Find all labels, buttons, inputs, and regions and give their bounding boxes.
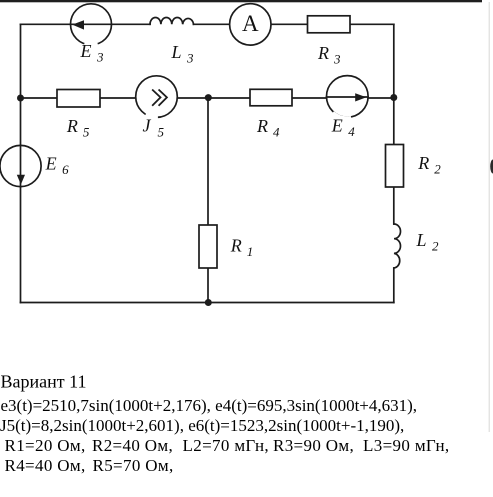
svg-text:J5(t)=8,2sin(1000t+2,601), e6(: J5(t)=8,2sin(1000t+2,601), e6(t)=1523,2s…: [0, 416, 404, 435]
resistor R1: [199, 225, 217, 268]
wire bottom: [21, 302, 394, 304]
junction node bottom: [205, 299, 212, 306]
voltage source E6: [0, 145, 41, 186]
junction node right: [390, 94, 397, 101]
wire top right segment: [194, 23, 394, 25]
svg-text:e3(t)=2510,7sin(1000t+2,176),: e3(t)=2510,7sin(1000t+2,176), e4(t)=695,…: [1, 396, 418, 415]
faint vertical page rule at right: [489, 2, 490, 432]
svg-text:A: A: [242, 11, 259, 36]
inductor L2: [394, 224, 401, 268]
svg-text:Вариант 11: Вариант 11: [1, 372, 87, 392]
wire right vertical lower: [393, 268, 395, 303]
resistor R2: [386, 145, 404, 188]
svg-text:R1=20 Ом,R2=40 Ом,L2=70 мГн,R3: R1=20 Ом,R2=40 Ом,L2=70 мГн,R3=90 Ом,L3=…: [5, 436, 450, 455]
voltage source E4: [327, 76, 369, 118]
wire top left segment: [21, 23, 151, 25]
junction node left: [17, 95, 24, 102]
wire left vertical: [20, 24, 22, 302]
top border line of cropped page region: [0, 0, 482, 2]
resistor R4: [250, 89, 292, 106]
resistor R5: [57, 90, 100, 108]
voltage source E3: [71, 4, 112, 45]
wire middle vertical: [207, 98, 209, 303]
ammeter A: [230, 4, 271, 45]
current source J5: [136, 76, 178, 118]
junction node middle: [205, 94, 212, 101]
cropped dark glyph at right edge: [490, 160, 493, 174]
resistor R3: [308, 16, 351, 33]
wire middle horizontal: [21, 97, 394, 99]
inductor L3: [150, 17, 194, 24]
wire right vertical upper: [393, 24, 395, 224]
